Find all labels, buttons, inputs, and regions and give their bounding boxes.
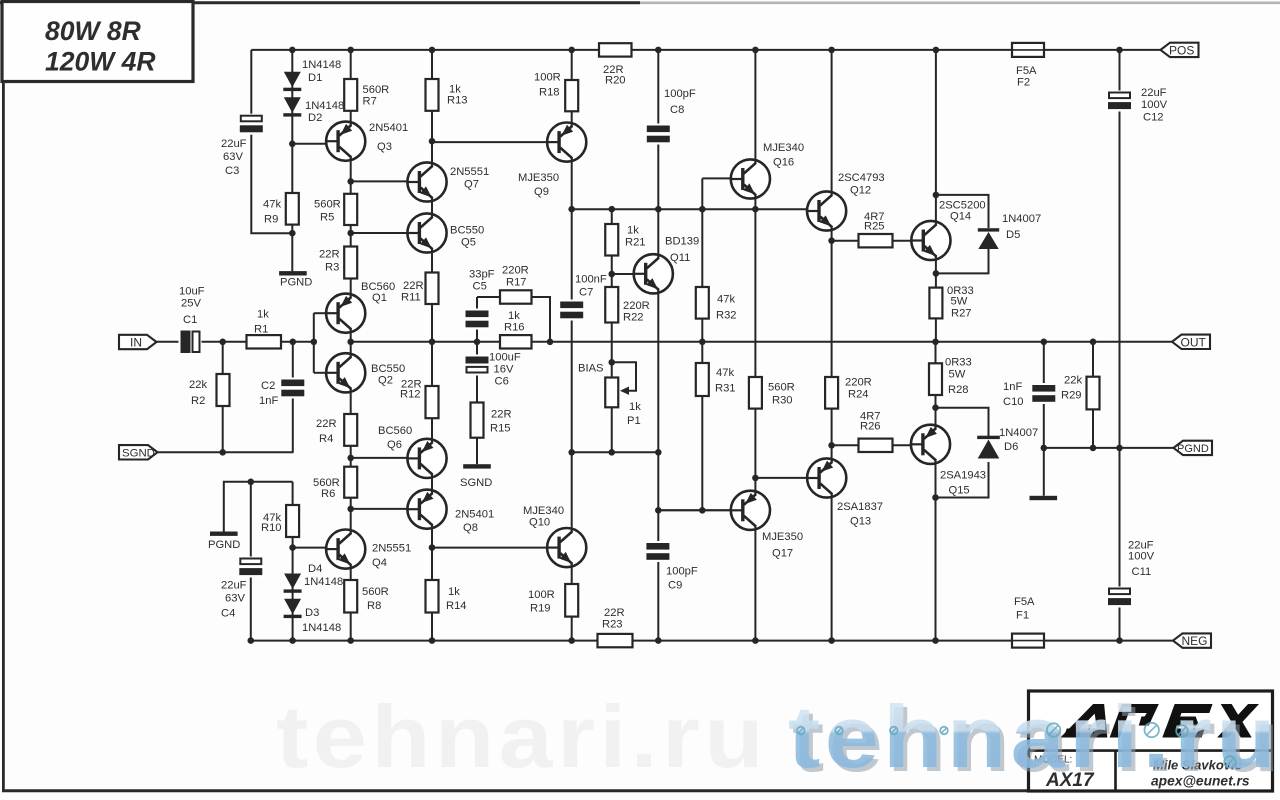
- resistor R32 47k: [696, 287, 737, 322]
- resistor R11 22R: [401, 273, 439, 305]
- ground PGND lower: [208, 532, 240, 552]
- diode D3 1N4148: [284, 599, 342, 634]
- wire: PGND local link: [224, 482, 293, 532]
- svg-text:560R: 560R: [362, 586, 389, 598]
- resistor R1 1k: [247, 309, 282, 349]
- wire: Q14 emitter R27: [935, 259, 937, 342]
- svg-text:C5: C5: [473, 281, 487, 293]
- svg-text:100R: 100R: [534, 72, 561, 84]
- capacitor C7 100nF: [560, 274, 607, 321]
- svg-text:D2: D2: [308, 112, 322, 124]
- wire: C6 R15 branch: [476, 342, 478, 464]
- transistor Q14 2SC5200: [910, 200, 985, 261]
- wire: C4 branch: [250, 482, 252, 641]
- svg-text:tehnari.ru: tehnari.ru: [276, 687, 768, 786]
- diode D5 1N4007: [978, 213, 1041, 249]
- terminal IN: [119, 335, 157, 350]
- wire: R7 Q3 chain: [350, 50, 352, 123]
- svg-text:100nF: 100nF: [575, 274, 607, 286]
- svg-text:Q6: Q6: [387, 439, 402, 451]
- svg-text:D3: D3: [305, 607, 319, 619]
- resistor R22 220R: [605, 287, 650, 324]
- resistor R23 22R: [598, 607, 633, 647]
- svg-text:P1: P1: [627, 415, 641, 427]
- transistor Q8 2N5401: [406, 490, 494, 534]
- transistor Q3 2N5401: [325, 122, 408, 161]
- transistor Q16 MJE340: [730, 142, 804, 199]
- label BIAS: [578, 363, 604, 375]
- svg-text:47k: 47k: [263, 199, 281, 211]
- wire: Q11 base: [612, 273, 634, 275]
- capacitor C5 33pF: [465, 269, 495, 330]
- transistor Q5 BC550: [406, 213, 484, 252]
- svg-text:R12: R12: [400, 389, 421, 401]
- wire: Q1-Q2 link: [350, 332, 352, 354]
- svg-text:PGND: PGND: [280, 277, 312, 289]
- svg-text:IN: IN: [130, 336, 142, 350]
- svg-text:Q15: Q15: [949, 485, 970, 497]
- svg-text:MJE340: MJE340: [523, 505, 564, 517]
- terminal SGND flag: [119, 445, 158, 459]
- diode D1 1N4148: [283, 59, 341, 91]
- svg-text:33pF: 33pF: [469, 269, 495, 281]
- svg-text:NEG: NEG: [1182, 634, 1208, 648]
- transistor Q2 BC550: [325, 353, 405, 392]
- resistor R8 560R: [344, 580, 389, 613]
- svg-text:2SA1943: 2SA1943: [940, 470, 986, 482]
- svg-text:2N5551: 2N5551: [450, 166, 489, 178]
- resistor R7 560R: [344, 79, 389, 111]
- transistor Q12 2SC4793: [806, 172, 885, 231]
- svg-text:R26: R26: [860, 421, 881, 433]
- svg-text:63V: 63V: [225, 593, 245, 605]
- junction dots on upper VAS rail: [568, 206, 758, 213]
- svg-text:D4: D4: [308, 563, 322, 575]
- transistor Q1 BC560: [325, 281, 395, 333]
- svg-text:5W: 5W: [951, 296, 968, 308]
- svg-text:C10: C10: [1003, 396, 1024, 408]
- wire: Q7 base: [351, 180, 408, 182]
- resistor R21 1k: [605, 224, 645, 256]
- svg-text:Q13: Q13: [850, 516, 871, 528]
- capacitor C10 1nF: [1003, 381, 1056, 408]
- wire: Q16 emitter R30 chain: [754, 198, 756, 491]
- svg-text:R14: R14: [446, 600, 467, 612]
- capacitor C3 22uF 63V: [221, 114, 264, 177]
- wire: D6 bottom link: [936, 462, 989, 498]
- svg-text:R5: R5: [320, 212, 334, 224]
- wire: P1 wiper link: [612, 362, 636, 390]
- svg-text:R9: R9: [264, 214, 278, 226]
- svg-text:C2: C2: [261, 380, 275, 392]
- svg-text:R2: R2: [191, 395, 205, 407]
- svg-text:Q7: Q7: [464, 179, 479, 191]
- svg-text:R23: R23: [602, 619, 623, 631]
- svg-text:C6: C6: [495, 376, 509, 388]
- svg-text:100R: 100R: [528, 589, 555, 601]
- svg-text:Q11: Q11: [670, 252, 690, 264]
- svg-text:5W: 5W: [949, 369, 966, 381]
- wire: Q8 R14 chain: [431, 528, 433, 641]
- resistor R10 47k: [261, 505, 299, 537]
- svg-text:100pF: 100pF: [664, 88, 696, 100]
- title power box: [2, 2, 193, 82]
- wire: D6 top link: [936, 408, 989, 436]
- wire: Q4 base: [293, 547, 327, 549]
- wire: Q3 base: [292, 143, 326, 145]
- svg-text:C8: C8: [670, 104, 684, 116]
- svg-text:F1: F1: [1016, 610, 1029, 622]
- capacitor C6 100uF 16V: [465, 352, 521, 388]
- wire: R2 branch: [222, 342, 224, 453]
- svg-text:220R: 220R: [502, 265, 529, 277]
- svg-text:Q4: Q4: [372, 557, 387, 569]
- svg-text:1nF: 1nF: [1003, 381, 1022, 393]
- wire: Q17 collector: [754, 529, 756, 641]
- svg-text:BD139: BD139: [665, 236, 699, 248]
- wire: Q7-Q5 link: [431, 201, 433, 214]
- wire: R26 to Q15 base: [832, 444, 912, 446]
- wire: PGND rail right: [1044, 447, 1175, 449]
- svg-text:OUT: OUT: [1181, 336, 1207, 350]
- svg-text:1k: 1k: [508, 310, 520, 322]
- wire: C2 bottom: [292, 342, 294, 453]
- watermark tehnari.ru: [276, 687, 1280, 790]
- svg-text:Q8: Q8: [463, 522, 478, 534]
- svg-text:22R: 22R: [403, 280, 424, 292]
- wire: Q15 collector: [935, 463, 937, 641]
- svg-text:100V: 100V: [1128, 551, 1155, 563]
- diode D6 1N4007: [977, 427, 1038, 459]
- terminal OUT: [1172, 335, 1210, 350]
- svg-text:C3: C3: [225, 165, 239, 177]
- wire: Q13 collector: [831, 497, 833, 641]
- wire: D5 top link: [936, 195, 989, 228]
- resistor R15 22R: [471, 403, 512, 438]
- svg-text:R20: R20: [605, 75, 626, 87]
- svg-text:1N4148: 1N4148: [304, 576, 343, 588]
- svg-text:PGND: PGND: [1177, 443, 1209, 455]
- wire: Q10 emitter R19: [571, 566, 573, 640]
- svg-text:25V: 25V: [181, 298, 201, 310]
- resistor R30 560R: [749, 377, 795, 409]
- wire: C12 C11 branch: [1119, 50, 1121, 641]
- resistor R2 22k: [189, 374, 230, 407]
- svg-text:R8: R8: [367, 600, 381, 612]
- svg-text:22uF: 22uF: [221, 138, 247, 150]
- wire: Q11 emitter chain: [657, 293, 659, 641]
- wire: R29 branch: [1092, 342, 1094, 448]
- svg-text:MJE350: MJE350: [518, 172, 559, 184]
- svg-text:22uF: 22uF: [221, 580, 247, 592]
- wire: R21 R22 P1 chain: [611, 209, 613, 452]
- svg-text:120W 4R: 120W 4R: [45, 47, 155, 77]
- capacitor C8 100pF: [646, 88, 696, 145]
- capacitor C12 22uF 100V: [1107, 87, 1168, 124]
- svg-text:100V: 100V: [1141, 99, 1168, 111]
- wire: Q5 base: [351, 232, 408, 234]
- svg-text:22k: 22k: [1064, 375, 1082, 387]
- wire: Q12 emitter R24 chain: [831, 230, 833, 459]
- resistor R29 22k: [1061, 375, 1100, 410]
- junction dots bias network: [568, 237, 834, 513]
- svg-text:R19: R19: [530, 603, 551, 615]
- transistor Q17 MJE350: [730, 491, 803, 560]
- svg-text:2SC4793: 2SC4793: [838, 172, 885, 184]
- svg-text:22R: 22R: [316, 418, 337, 430]
- svg-text:R3: R3: [325, 262, 339, 274]
- transistor Q7 2N5551: [406, 162, 489, 201]
- transistor Q4 2N5551: [325, 530, 411, 570]
- trimmer P1 1k: [605, 378, 641, 428]
- resistor R12 22R: [400, 379, 439, 419]
- wire: D5 bottom link: [936, 246, 989, 273]
- svg-text:1N4148: 1N4148: [305, 100, 344, 112]
- resistor R4 22R: [316, 414, 357, 446]
- svg-text:MJE340: MJE340: [763, 142, 804, 154]
- svg-text:R29: R29: [1061, 390, 1082, 402]
- svg-text:F2: F2: [1017, 77, 1030, 89]
- svg-text:MJE350: MJE350: [762, 531, 803, 543]
- diode D2 1N4148: [283, 97, 344, 124]
- svg-text:SGND: SGND: [460, 477, 492, 489]
- svg-text:2N5401: 2N5401: [455, 509, 494, 521]
- wire: C8 Q11 chain: [657, 50, 659, 255]
- transistor Q6 BC560: [378, 425, 447, 478]
- svg-text:Q5: Q5: [461, 237, 476, 249]
- svg-text:22R: 22R: [319, 249, 340, 261]
- capacitor C11 22uF 100V: [1107, 540, 1155, 608]
- svg-text:F5A: F5A: [1016, 65, 1037, 77]
- svg-text:220R: 220R: [845, 377, 872, 389]
- wire: Q8 base: [351, 508, 408, 510]
- resistor R6 560R: [313, 467, 357, 500]
- svg-text:1k: 1k: [629, 401, 641, 413]
- wire: Q9 base: [432, 141, 548, 143]
- wire: Q2 base stub: [314, 372, 327, 374]
- svg-text:POS: POS: [1169, 44, 1194, 58]
- resistor R17 220R: [500, 265, 532, 304]
- svg-text:22R: 22R: [604, 607, 625, 619]
- svg-text:R16: R16: [504, 322, 525, 334]
- wire: lower bias link: [572, 451, 659, 453]
- svg-text:R28: R28: [948, 384, 969, 396]
- wire: C5 top stub: [476, 297, 478, 342]
- svg-text:Q17: Q17: [772, 548, 793, 560]
- svg-text:1k: 1k: [257, 309, 269, 321]
- wire: R17 link: [477, 297, 550, 342]
- wire: base tee: [313, 313, 315, 373]
- svg-text:1N4007: 1N4007: [999, 427, 1038, 439]
- svg-text:22k: 22k: [189, 379, 207, 391]
- svg-text:R30: R30: [772, 395, 793, 407]
- svg-text:R32: R32: [716, 310, 737, 322]
- transistor Q10 MJE340: [523, 505, 586, 567]
- svg-text:tehnari.ru: tehnari.ru: [788, 687, 1280, 786]
- wire: Q10 base: [432, 547, 548, 549]
- wire: Q2 to Q4 chain: [350, 392, 352, 531]
- svg-text:R4: R4: [319, 433, 333, 445]
- title block box: [1029, 691, 1273, 791]
- svg-text:560R: 560R: [768, 382, 795, 394]
- svg-text:22uF: 22uF: [1141, 87, 1167, 99]
- wire: Q3 to Q1 chain: [350, 160, 352, 295]
- svg-text:100pF: 100pF: [666, 566, 698, 578]
- svg-text:Q12: Q12: [850, 185, 871, 197]
- svg-text:Q10: Q10: [529, 517, 550, 529]
- svg-text:R22: R22: [623, 312, 644, 324]
- wire: R13 Q7 chain: [431, 50, 433, 163]
- wire: Q16 collector: [754, 50, 756, 160]
- svg-text:220R: 220R: [623, 300, 650, 312]
- junction dots PGND rail: [1041, 445, 1123, 452]
- wire: Q1 base stub: [314, 312, 327, 314]
- ground PGND upper: [279, 271, 312, 288]
- junction dots left chains: [248, 138, 436, 551]
- wire: R18 Q9 chain: [571, 50, 573, 123]
- resistor R26 4R7: [859, 411, 893, 453]
- svg-text:47k: 47k: [717, 294, 735, 306]
- svg-text:R17: R17: [506, 277, 527, 289]
- wire: Q16 base: [702, 177, 731, 179]
- wire: R28 Q15 chain: [935, 342, 937, 426]
- svg-text:C9: C9: [668, 580, 682, 592]
- resistor R14 1k: [426, 580, 467, 613]
- svg-text:Q1: Q1: [372, 292, 387, 304]
- svg-text:R25: R25: [864, 221, 885, 233]
- svg-text:BC550: BC550: [450, 225, 484, 237]
- svg-text:80W 8R: 80W 8R: [45, 16, 141, 46]
- svg-text:R11: R11: [401, 292, 421, 304]
- svg-text:63V: 63V: [223, 151, 243, 163]
- svg-text:Q9: Q9: [534, 186, 549, 198]
- wire: Q9 collector to Q10 collector: [571, 161, 573, 529]
- wire: R32 R31 chain: [701, 178, 703, 510]
- svg-text:C12: C12: [1143, 112, 1164, 124]
- APEX logo: [1060, 704, 1259, 738]
- resistor R19 100R: [528, 584, 578, 617]
- wire: C3 branch: [251, 50, 292, 233]
- svg-text:C1: C1: [183, 314, 197, 326]
- resistor R3 22R: [319, 247, 357, 279]
- svg-text:100uF: 100uF: [489, 352, 521, 364]
- ground SGND mid: [460, 464, 492, 489]
- svg-text:2N5551: 2N5551: [372, 543, 411, 555]
- svg-text:Q2: Q2: [378, 375, 393, 387]
- junction dots on output rail: [347, 339, 1096, 346]
- transistor Q9 MJE350: [518, 123, 586, 198]
- wire: D1 D2 R9 chain: [291, 50, 293, 271]
- svg-text:R24: R24: [848, 389, 869, 401]
- svg-text:Q16: Q16: [773, 157, 794, 169]
- capacitor C1 10uF 25V: [179, 286, 205, 355]
- terminal POS: [1161, 43, 1199, 58]
- wire: SGND line left: [157, 451, 294, 453]
- fuse F2 F5A: [1012, 43, 1044, 89]
- svg-text:1k: 1k: [448, 586, 460, 598]
- terminal PGND flag: [1174, 441, 1213, 455]
- svg-text:SGND: SGND: [122, 448, 155, 460]
- title block text: [1034, 755, 1250, 792]
- svg-text:10uF: 10uF: [179, 286, 205, 298]
- resistor R25 4R7: [859, 211, 893, 247]
- wire: Q6-Q8 link: [431, 477, 433, 490]
- svg-text:0R33: 0R33: [945, 357, 972, 369]
- svg-text:47k: 47k: [716, 367, 734, 379]
- transistor Q15 2SA1943: [910, 425, 986, 497]
- svg-text:R13: R13: [447, 95, 468, 107]
- diode D4 1N4148: [284, 563, 344, 593]
- svg-text:R27: R27: [951, 308, 972, 320]
- svg-text:BIAS: BIAS: [578, 363, 604, 375]
- transistor Q11 BD139: [633, 236, 700, 294]
- svg-text:22R: 22R: [491, 409, 512, 421]
- svg-text:2N5401: 2N5401: [369, 122, 408, 134]
- wire: Q12 emitter to R25: [832, 240, 912, 242]
- resistor R31 47k: [696, 363, 736, 396]
- svg-text:C4: C4: [221, 608, 235, 620]
- svg-text:2SA1837: 2SA1837: [837, 501, 883, 513]
- resistor R20 22R: [599, 43, 632, 86]
- wire: Q14 collector: [935, 50, 937, 222]
- svg-text:C11: C11: [1132, 566, 1152, 578]
- junction dots on top rail: [289, 47, 1123, 54]
- svg-text:Q14: Q14: [950, 211, 971, 223]
- svg-text:560R: 560R: [314, 199, 341, 211]
- terminal NEG: [1173, 633, 1211, 648]
- wire: -supply bottom rail: [251, 640, 1175, 642]
- wire: +supply top rail: [251, 49, 1161, 51]
- svg-text:R10: R10: [261, 522, 282, 534]
- resistor R5 560R: [314, 194, 357, 225]
- resistor R27 0R33 5W: [929, 285, 973, 320]
- svg-text:R18: R18: [539, 87, 560, 99]
- wire: upper VAS rail: [572, 208, 808, 210]
- svg-text:1N4148: 1N4148: [302, 622, 341, 634]
- svg-text:R15: R15: [490, 423, 511, 435]
- svg-text:1k: 1k: [627, 225, 639, 237]
- svg-text:1N4007: 1N4007: [1002, 213, 1041, 225]
- junction dots on bottom rail: [248, 637, 1123, 644]
- wire: C10 branch: [1043, 342, 1045, 496]
- resistor R13 1k: [426, 79, 468, 111]
- svg-text:560R: 560R: [363, 84, 390, 96]
- svg-text:BC550: BC550: [371, 363, 405, 375]
- resistor R18 100R: [534, 72, 578, 112]
- wire: Q12 collector: [831, 50, 833, 192]
- resistor R28 0R33 5W: [929, 357, 972, 397]
- wire: lower VAS rail: [658, 509, 731, 511]
- capacitor C4 22uF 63V: [221, 557, 263, 620]
- svg-text:D5: D5: [1006, 229, 1020, 241]
- wire: output/feedback rail: [351, 341, 1172, 343]
- resistor R9 47k: [263, 193, 299, 226]
- wire: Q5 R11 R12 Q6 chain: [431, 252, 433, 440]
- capacitor C9 100pF: [646, 541, 698, 592]
- transistor Q13 2SA1837: [806, 458, 883, 527]
- svg-text:D1: D1: [308, 72, 322, 84]
- svg-text:R31: R31: [715, 383, 736, 395]
- svg-text:1N4148: 1N4148: [302, 59, 341, 71]
- svg-text:R7: R7: [363, 96, 377, 108]
- fuse F1 F5A: [1012, 596, 1044, 648]
- wire: Q13 base: [755, 477, 807, 479]
- resistor R16 1k: [500, 310, 532, 349]
- junction dots output devices: [932, 192, 939, 501]
- capacitor C2 1nF: [259, 378, 305, 408]
- wire: input line IN to base tee: [156, 341, 314, 343]
- svg-text:PGND: PGND: [208, 539, 240, 551]
